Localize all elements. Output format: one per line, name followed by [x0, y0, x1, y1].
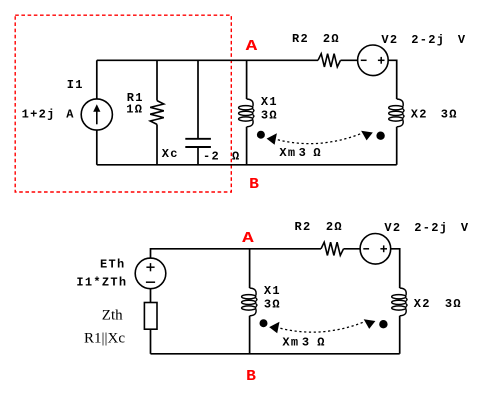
wire: Zth bottom lead — [150, 329, 152, 354]
svg-text:I1: I1 — [67, 78, 84, 92]
svg-text:1Ω: 1Ω — [126, 102, 143, 116]
resistor R2 zigzag (bottom) — [321, 242, 344, 255]
wire: Xc branch bottom lead — [197, 148, 199, 165]
wire: ETh branch top corner to top rail (bottom circuit) — [151, 249, 322, 258]
wire: V2 to top-right corner down to X2 (bottom circuit) — [391, 249, 400, 288]
V2 plus sign (top) — [378, 57, 385, 64]
svg-text:2Ω: 2Ω — [326, 220, 343, 234]
svg-text:A: A — [246, 38, 258, 55]
wire: Xc branch top lead — [197, 60, 199, 138]
svg-text:X2: X2 — [414, 297, 431, 311]
current source I1 arrow — [93, 104, 100, 124]
svg-text:3Ω: 3Ω — [261, 109, 278, 123]
wire: node A branch through X1 top lead — [246, 60, 248, 99]
wire: top rail from current source to R2 (top circuit) — [97, 59, 318, 61]
svg-text:V2: V2 — [381, 33, 398, 47]
svg-text:Xm: Xm — [279, 146, 296, 160]
inductor X1 (bottom) coil — [242, 288, 257, 316]
svg-text:3Ω: 3Ω — [441, 108, 458, 122]
mutual coupling arrowhead left (top) — [267, 133, 277, 145]
svg-text:1+2j: 1+2j — [22, 107, 56, 121]
svg-text:R2: R2 — [292, 32, 309, 46]
mutual coupling dashed arc Xm (top) — [278, 134, 361, 144]
svg-text:V: V — [458, 33, 467, 47]
mutual coupling arrowhead left (bottom) — [269, 322, 279, 334]
X1 polarity dot (top) — [257, 131, 265, 139]
svg-text:Ω: Ω — [313, 146, 322, 160]
V2 minus sign (bottom) — [363, 248, 369, 250]
wire: R1 branch bottom lead — [156, 124, 158, 164]
svg-text:Ω: Ω — [317, 335, 326, 349]
X2 polarity dot (bottom) — [379, 320, 387, 328]
X1 polarity dot (bottom) — [260, 319, 268, 327]
ETh plus sign — [146, 263, 154, 271]
mutual coupling dashed arc Xm (bottom) — [280, 322, 363, 332]
wire: R1 branch top lead — [156, 60, 158, 100]
svg-text:-2: -2 — [203, 150, 220, 164]
resistor R2 zigzag (top) — [318, 54, 341, 67]
voltage source V2 circle (bottom) — [360, 234, 391, 265]
mutual coupling arrowhead right (top) — [361, 131, 373, 141]
wire: X1 bottom lead (bottom circuit) — [249, 316, 251, 354]
svg-text:A: A — [66, 107, 75, 121]
wire: R2 right lead to V2 (bottom circuit) — [344, 248, 361, 250]
svg-text:3: 3 — [299, 146, 308, 160]
red dashed Thevenin-source boundary box — [15, 15, 231, 192]
wire: V2 to top-right corner down to X2 (top circuit) — [388, 60, 397, 99]
svg-text:2-2j: 2-2j — [411, 33, 445, 47]
wire: current source I1 bottom lead — [96, 130, 98, 165]
svg-text:3Ω: 3Ω — [445, 297, 462, 311]
svg-text:ETh: ETh — [100, 258, 126, 272]
V2 plus sign (bottom) — [380, 245, 387, 252]
svg-text:2-2j: 2-2j — [414, 221, 448, 235]
svg-text:3Ω: 3Ω — [264, 297, 281, 311]
wire: node A branch top lead (bottom circuit) — [249, 249, 251, 288]
svg-text:R1||Xc: R1||Xc — [84, 330, 125, 346]
svg-text:Zth: Zth — [102, 308, 123, 324]
capacitor Xc plates — [185, 139, 211, 147]
svg-text:2Ω: 2Ω — [323, 32, 340, 46]
svg-text:3: 3 — [302, 335, 311, 349]
svg-text:V2: V2 — [384, 221, 401, 235]
V2 minus sign (top) — [361, 59, 367, 61]
svg-text:X1: X1 — [261, 95, 278, 109]
wire: X2 bottom lead to bottom rail (bottom circuit) — [399, 316, 401, 354]
inductor X2 (bottom) coil — [392, 288, 407, 316]
svg-text:B: B — [249, 176, 259, 193]
svg-text:Xc: Xc — [162, 147, 179, 161]
svg-text:R2: R2 — [295, 220, 312, 234]
wire: current source I1 top lead — [96, 60, 98, 99]
wire: bottom rail (top circuit) — [97, 164, 397, 166]
ETh minus sign — [146, 281, 155, 283]
voltage source V2 circle (top) — [358, 45, 389, 76]
impedance Zth box — [144, 303, 157, 330]
svg-text:Ω: Ω — [232, 150, 241, 164]
X2 polarity dot (top) — [376, 132, 384, 140]
svg-text:Xm: Xm — [282, 335, 299, 349]
svg-text:I1*ZTh: I1*ZTh — [76, 275, 127, 289]
wire: ETh to Zth connecting lead — [150, 289, 152, 303]
svg-text:V: V — [461, 221, 470, 235]
inductor X2 (top) coil — [389, 99, 404, 127]
svg-text:B: B — [246, 368, 256, 385]
svg-text:X2: X2 — [411, 108, 428, 122]
inductor X1 (top) coil — [239, 99, 254, 127]
mutual coupling arrowhead right (bottom) — [364, 319, 376, 329]
wire: X1 bottom lead to node B rail — [246, 127, 248, 165]
svg-text:A: A — [242, 230, 254, 247]
voltage source ETh circle — [135, 258, 166, 289]
wire: bottom rail (bottom circuit) — [151, 353, 400, 355]
wire: R2 right lead to V2 (top circuit) — [341, 59, 358, 61]
wire: X2 bottom lead to bottom rail (top circuit) — [396, 127, 398, 165]
resistor R1 zigzag — [150, 101, 164, 125]
current source I1 (1+2j A) circle — [81, 99, 112, 130]
svg-text:X1: X1 — [264, 284, 281, 298]
